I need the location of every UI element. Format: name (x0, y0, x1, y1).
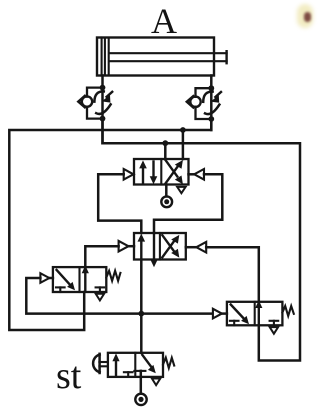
valve V3 spring (106, 271, 120, 281)
wire net B: line1 from FC2 down, across left, down left side, to valve V3 input (9, 119, 211, 330)
wire net A: line2 from FC1 down, across right, down right side, to valve V4 input (103, 119, 301, 361)
wire pilot bus from V3 pilot to V4 pilot (26, 278, 212, 314)
pressure source under V1 (161, 196, 172, 207)
exhaust triangle under ST (152, 379, 160, 386)
valve ST pushbutton (93, 354, 108, 373)
flow control valve FC1 (left) check-valve bypass (78, 88, 102, 119)
valve ST body (3/2 manual start) (108, 353, 163, 377)
cylinder A body (97, 38, 214, 76)
node line2 to V1 left top port (162, 140, 168, 146)
flow control valve FC2 (right) check-valve bypass (187, 88, 211, 119)
node FC2 bottom (208, 116, 214, 122)
valve V4 left square diagonal arrow (231, 305, 249, 325)
valve V2 left square up arrow (138, 234, 146, 259)
valve ST left square up arrow (112, 353, 119, 375)
node FC1 bottom (100, 116, 106, 122)
node FC2 top (208, 85, 214, 91)
wire V2 right pilot from valve V4 output (206, 247, 259, 302)
wire V2 left pilot from valve V3 output (85, 246, 118, 267)
valve ST right square diagonal arrow to exhaust (142, 355, 156, 373)
flow control valve FC1 throttle line (101, 88, 104, 144)
exhaust triangle under V1 (177, 187, 185, 193)
wire V1 right pilot loop to V2 port2 (154, 174, 222, 233)
valve V2 body (4/2 pilot-pilot) (134, 233, 186, 260)
valve V4 left square blocked port T (230, 321, 239, 326)
label st (start valve) (56, 354, 81, 398)
wire V1 top-right port (182, 130, 185, 159)
valve V1 left square up arrow (139, 160, 147, 182)
valve V4 right square up arrow (255, 300, 262, 324)
valve ST spring (163, 358, 174, 368)
valve V2 right pilot triangle (186, 242, 206, 253)
valve V1 body (4/2 pilot-pilot) (134, 159, 189, 185)
valve V2 left pilot triangle (119, 241, 134, 252)
wire V1 top-left port (164, 143, 167, 159)
valve V1 left square down arrow (150, 162, 158, 185)
flow control valve FC2 throttle arcs and arrow (203, 92, 221, 115)
cylinder piston rod (110, 51, 227, 63)
wire cylinder left port to left flow control (101, 76, 104, 88)
label A (cylinder) (151, 0, 177, 42)
exhaust triangle under V3 (96, 294, 104, 301)
wire V1 left pilot loop to V2 port4 (98, 174, 141, 233)
pressure source under ST (135, 394, 146, 405)
wire ST pressure port to source (140, 371, 143, 394)
valve V4 body (3/2 right) (227, 302, 283, 326)
wire V1 pressure port to source (165, 185, 168, 197)
valve V2 right square crossed arrows (162, 235, 179, 258)
exhaust triangle under V4 (270, 327, 278, 334)
node line1 to V1 right top port (180, 127, 186, 133)
valve ST left square blocked port T (124, 372, 133, 377)
wire V2 pressure port down to st valve (140, 260, 143, 353)
wire cylinder right port to right flow control (210, 76, 213, 89)
valve V4 right square blocked port T (270, 321, 279, 326)
valve V3 left square diagonal arrow (57, 270, 75, 290)
valve V3 pilot triangle (40, 273, 53, 283)
node main line junction (138, 311, 144, 317)
valve V3 body (3/2 left) (53, 267, 106, 292)
scan smudge top right (297, 4, 313, 28)
valve V1 right square crossed arrows (165, 160, 183, 184)
node FC1 top (100, 85, 106, 91)
valve V2 left square down arrow (exhaust through bottom) (150, 233, 158, 267)
valve V4 pilot triangle (213, 309, 227, 319)
valve V4 spring (282, 306, 293, 316)
valve ST right square blocked pressure port T (134, 370, 145, 372)
valve V1 right pilot triangle (189, 169, 205, 180)
valve V3 left square blocked port T (56, 287, 65, 292)
valve V1 left pilot triangle (124, 169, 134, 180)
cylinder piston (105, 39, 109, 75)
flow control valve FC1 throttle arcs and arrow (94, 91, 112, 114)
flow control valve FC2 throttle line (210, 88, 213, 130)
valve V3 right square blocked port T (96, 287, 105, 292)
valve V3 right square up arrow (82, 265, 89, 290)
